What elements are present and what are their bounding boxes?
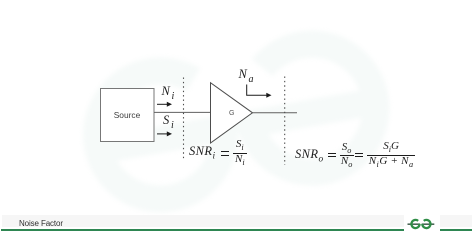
dashed line input reference (183, 78, 185, 159)
op-amp triangle G (211, 83, 253, 143)
logo white patch (404, 213, 440, 232)
label Ni (162, 84, 176, 99)
footer title (19, 219, 63, 228)
Na arrow (247, 85, 272, 98)
GfG logo (407, 218, 435, 231)
source box (101, 89, 155, 142)
dashed line output reference (284, 77, 286, 166)
source label (100, 110, 154, 120)
footer bar (2, 215, 472, 228)
label Si (163, 113, 174, 128)
footer green rule (1, 229, 472, 231)
arrow Ni (157, 102, 172, 107)
wire output (253, 112, 298, 114)
gain label G (229, 110, 234, 117)
formula SNRi (189, 144, 215, 159)
label Na (239, 67, 255, 82)
formula SNRo (295, 147, 324, 162)
wire input (154, 111, 211, 113)
arrow Si (157, 131, 172, 136)
